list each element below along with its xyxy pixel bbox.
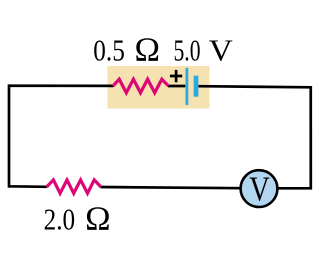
resistor R2 zigzag	[47, 180, 101, 193]
svg-text:Ω: Ω	[135, 31, 161, 68]
svg-text:V: V	[209, 32, 234, 67]
svg-text:0.5: 0.5	[93, 32, 125, 67]
wire top-right + right side + bottom-right	[198, 86, 310, 188]
wire top-left + left side + bottom-left	[9, 86, 114, 187]
svg-text:Ω: Ω	[85, 200, 111, 237]
svg-text:V: V	[249, 170, 270, 208]
plus sign of battery	[170, 70, 182, 82]
highlight box	[108, 66, 210, 109]
voltmeter circle	[241, 170, 278, 207]
wire bottom middle	[101, 187, 243, 188]
battery short plate	[194, 76, 199, 97]
svg-text:2.0: 2.0	[44, 201, 76, 236]
svg-text:5.0: 5.0	[174, 32, 201, 67]
resistor R1 zigzag	[113, 79, 169, 93]
battery long plate	[185, 68, 188, 105]
wire between resistor R1 and battery	[168, 85, 185, 88]
